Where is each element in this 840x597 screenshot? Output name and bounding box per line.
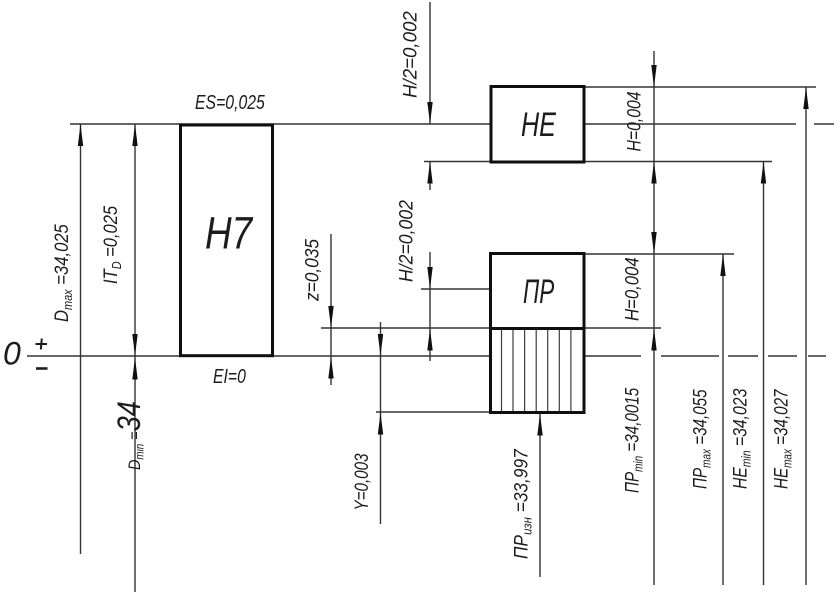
arrow up at PRmax/PRtop [720, 254, 725, 276]
arrow up at H2/HEbottom [427, 162, 432, 184]
wire ITd and Dmin dimension line [134, 124, 136, 592]
svg-text:ПРmin =34,0015: ПРmin =34,0015 [621, 387, 646, 493]
arrow up at Dmax/ES [78, 124, 83, 146]
arrow down at ITd/zero [132, 334, 137, 356]
wire top of PR line [584, 253, 734, 255]
arrow up at PRworn bottom [537, 414, 542, 436]
svg-text:H/2=0,002: H/2=0,002 [399, 11, 420, 98]
arrow up at H2/PRmin [427, 329, 432, 351]
wire PRworn dimension line [539, 413, 541, 577]
node HE gauge tolerance box [491, 87, 584, 163]
wire zero line [27, 355, 490, 357]
arrow up at Y/PRworn [378, 413, 383, 435]
svg-text:ITD =0,025: ITD =0,025 [100, 206, 124, 284]
svg-text:z=0,035: z=0,035 [302, 238, 323, 302]
arrow up at ITd/ES [132, 124, 137, 146]
svg-text:H/2=0,002: H/2=0,002 [395, 200, 417, 282]
arrow down at z/PRmin [328, 306, 333, 328]
svg-text:ПРизн =33,997: ПРизн =33,997 [511, 448, 535, 559]
wire ES level line [70, 123, 796, 125]
wire HEmax dimension line [805, 87, 807, 585]
arrow up at Dmin/zero [132, 358, 137, 380]
node minus sign [36, 367, 48, 370]
arrow up at H/PRmin [651, 329, 656, 351]
svg-text:H=0,004: H=0,004 [623, 91, 645, 151]
wire H/2 HE dimension line [429, 2, 431, 124]
arrow down at H2/PRmid [427, 267, 432, 289]
svg-text:НЕ: НЕ [521, 106, 557, 144]
wire Y dimension line [380, 322, 382, 524]
svg-text:ПР: ПР [523, 273, 555, 311]
node PR wear zone box [491, 329, 585, 413]
arrow up at H/HEbottom [651, 162, 656, 184]
wire PRmin level line [321, 327, 490, 329]
node PR gauge tolerance box [491, 254, 585, 329]
wire HEmin dimension line [763, 162, 765, 586]
svg-text:ES=0,025: ES=0,025 [195, 91, 266, 113]
wire z dimension line [330, 234, 332, 385]
arrow down at H/PRtop [651, 232, 656, 254]
node H7 tolerance zone box [181, 125, 273, 356]
svg-text:H7: H7 [205, 208, 254, 258]
svg-text:EI=0: EI=0 [213, 365, 246, 387]
wire PR worn level line [376, 411, 490, 413]
arrow down at Y/zero [378, 334, 383, 356]
wire bottom of HE line [424, 161, 772, 163]
arrow down at H2/ES [427, 102, 432, 124]
node plus sign [36, 339, 48, 350]
wire PRmax dimension line [722, 254, 724, 585]
wire middle of PR line [421, 288, 490, 290]
svg-text:Y=0,003: Y=0,003 [350, 453, 372, 510]
wire top of HE line [584, 86, 816, 88]
wire Dmax dimension line [80, 124, 82, 554]
wire hatch lines [501, 330, 503, 411]
wire H/2 PR dimension line [429, 252, 431, 361]
svg-text:0: 0 [3, 336, 21, 372]
arrow up at z/zero [328, 357, 333, 379]
svg-text:НЕmax =34,027: НЕmax =34,027 [770, 388, 795, 489]
wire H dimension line [653, 51, 655, 585]
svg-text:H=0,004: H=0,004 [622, 257, 643, 321]
arrow down at H/HEtop [651, 65, 656, 87]
svg-text:НЕmin =34,023: НЕmin =34,023 [729, 388, 754, 489]
arrow up at HEmin/HEbottom [761, 162, 766, 184]
svg-text:ПРmax =34,055: ПРmax =34,055 [689, 389, 714, 489]
arrow up at HEmax/HEtop [803, 87, 808, 109]
